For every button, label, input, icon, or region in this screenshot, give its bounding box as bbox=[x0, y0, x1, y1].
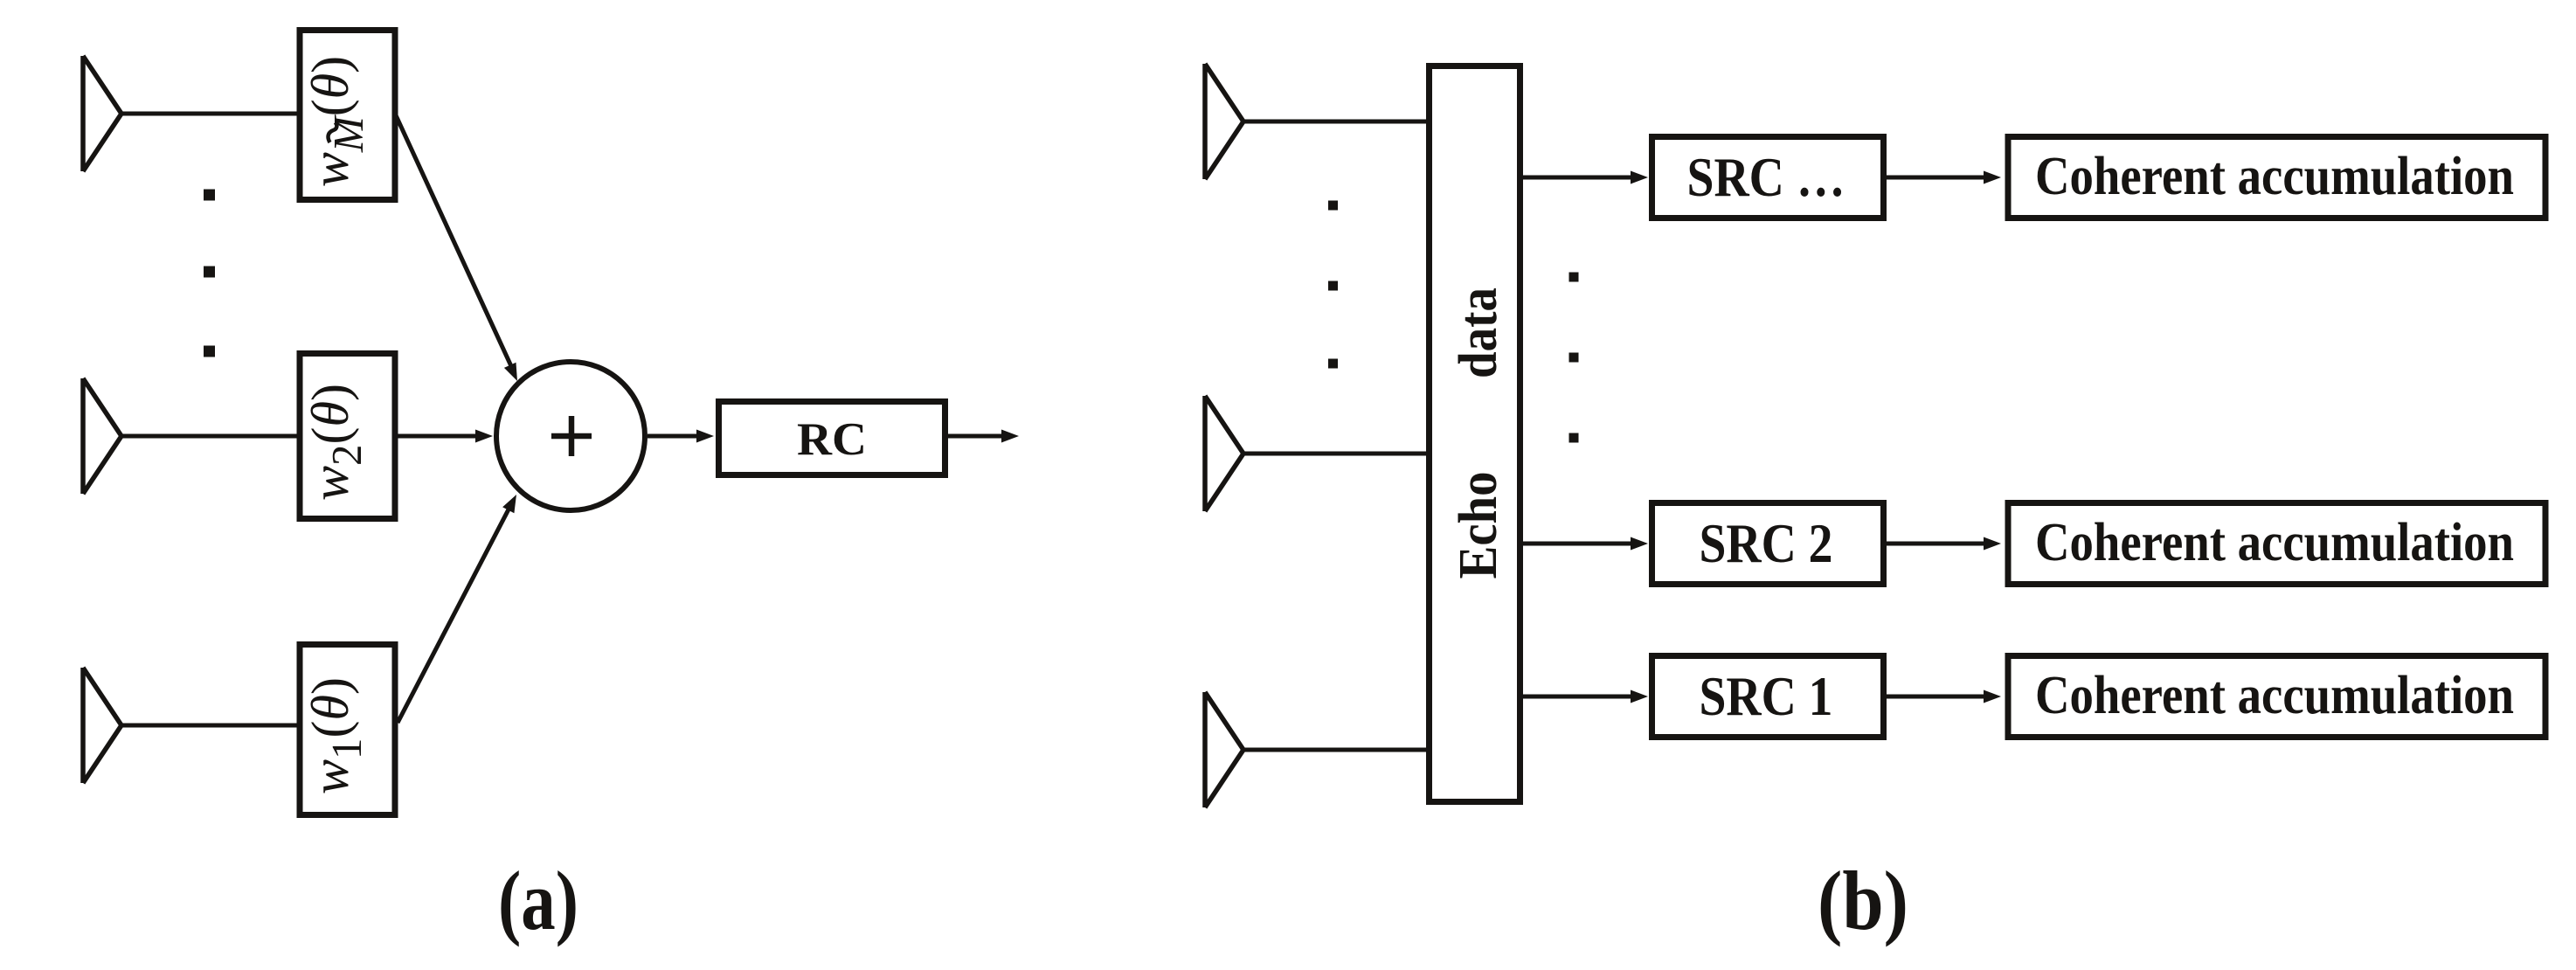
svg-text:w2(θ): w2(θ) bbox=[301, 384, 370, 501]
label coherent accumulation 1 bbox=[2035, 147, 2514, 206]
dots column part b left bbox=[1328, 201, 1338, 369]
arrowhead into SRC 1 bbox=[1631, 690, 1648, 703]
wire Echo data to SRC ... bbox=[1523, 176, 1638, 180]
arrowhead into RC bbox=[696, 430, 714, 443]
box SRC 2 bbox=[1652, 503, 1884, 585]
label Echo rotated bbox=[1449, 472, 1508, 579]
label RC bbox=[797, 414, 867, 465]
antenna B3 (part b, bottom) bbox=[1205, 692, 1243, 807]
arrowhead into SRC 2 bbox=[1631, 537, 1648, 551]
box Echo data bbox=[1430, 66, 1520, 802]
wire antenna A3 to box w1 bbox=[121, 724, 301, 728]
svg-text:(a): (a) bbox=[498, 854, 578, 947]
box SRC ... bbox=[1652, 137, 1884, 218]
arrowhead into coherent accumulation 2 bbox=[1984, 537, 2001, 551]
box SRC 1 bbox=[1652, 656, 1884, 738]
wire summer to RC bbox=[647, 434, 703, 439]
caption (b) bbox=[1818, 854, 1908, 947]
arrowhead into SRC ... bbox=[1631, 171, 1648, 184]
svg-text:w1(θ): w1(θ) bbox=[301, 677, 370, 794]
label SRC 2 bbox=[1700, 512, 1833, 574]
label w_2(theta) rotated bbox=[301, 384, 370, 501]
svg-text:Coherent accumulation: Coherent accumulation bbox=[2035, 513, 2514, 572]
wire diagonal box w1 to summer bbox=[398, 508, 509, 723]
label SRC 1 bbox=[1700, 665, 1833, 727]
label coherent accumulation 3 bbox=[2035, 666, 2514, 725]
arrowhead wM to summer bbox=[504, 363, 517, 381]
wire SRC 2 to coherent accumulation 2 bbox=[1884, 542, 1991, 546]
svg-text:RC: RC bbox=[797, 414, 867, 465]
svg-text:SRC 2: SRC 2 bbox=[1700, 512, 1833, 574]
antenna B2 (part b, middle) bbox=[1205, 396, 1243, 511]
plus sign in summer bbox=[551, 416, 592, 456]
arrowhead into coherent accumulation 3 bbox=[1984, 690, 2001, 703]
wire SRC 1 to coherent accumulation 3 bbox=[1884, 695, 1991, 699]
wire Echo data to SRC 2 bbox=[1523, 542, 1638, 546]
box w1 (weight w_1(theta)) bbox=[300, 645, 395, 815]
svg-text:SRC 1: SRC 1 bbox=[1700, 665, 1833, 727]
antenna B1 (part b, top) bbox=[1205, 64, 1243, 179]
svg-text:SRC …: SRC … bbox=[1687, 146, 1845, 208]
label SRC ... bbox=[1687, 146, 1845, 208]
output wire of RC bbox=[948, 434, 1008, 439]
box RC (range compression) bbox=[719, 402, 945, 475]
dots column part b right bbox=[1569, 273, 1579, 443]
arrowhead output of part a bbox=[1001, 430, 1019, 443]
arrowhead w2 to summer bbox=[475, 430, 493, 443]
antenna A2 (part a, middle) bbox=[83, 378, 121, 494]
svg-text:data: data bbox=[1449, 288, 1508, 378]
wire antenna A1 to box wM bbox=[121, 112, 301, 116]
caption (a) bbox=[498, 854, 578, 947]
wire antenna A2 to box w2 bbox=[121, 434, 301, 439]
antenna A3 (part a, bottom) bbox=[83, 668, 121, 783]
label w_1(theta) rotated bbox=[301, 677, 370, 794]
dots column part a bbox=[204, 190, 215, 357]
label data rotated bbox=[1449, 288, 1508, 378]
arrowhead into coherent accumulation 1 bbox=[1984, 171, 2001, 184]
arrowhead w1 to summer bbox=[502, 495, 516, 513]
wire Echo data to SRC 1 bbox=[1523, 695, 1638, 699]
label w_M(theta) rotated bbox=[301, 56, 372, 187]
wire antenna B2 to Echo data box bbox=[1243, 452, 1429, 456]
summer circle U1 bbox=[496, 362, 645, 510]
svg-text:Coherent accumulation: Coherent accumulation bbox=[2035, 666, 2514, 725]
box w2 (weight w_2(theta)) bbox=[300, 354, 395, 519]
svg-text:Echo: Echo bbox=[1449, 472, 1508, 579]
svg-text:(b): (b) bbox=[1818, 854, 1908, 947]
label coherent accumulation 2 bbox=[2035, 513, 2514, 572]
box coherent accumulation 2 bbox=[2008, 503, 2545, 585]
wire SRC ... to coherent accumulation 1 bbox=[1884, 176, 1991, 180]
box coherent accumulation 1 bbox=[2008, 137, 2545, 218]
wire antenna B1 to Echo data box bbox=[1243, 120, 1429, 124]
wire diagonal box wM to summer bbox=[396, 115, 511, 366]
antenna A1 (part a, top) bbox=[83, 56, 121, 171]
box coherent accumulation 3 bbox=[2008, 656, 2545, 738]
svg-text:Coherent accumulation: Coherent accumulation bbox=[2035, 147, 2514, 206]
wire antenna B3 to Echo data box bbox=[1243, 748, 1429, 752]
box wM (weight w_M(theta)) bbox=[300, 31, 395, 200]
wire box w2 to summer bbox=[396, 434, 482, 439]
